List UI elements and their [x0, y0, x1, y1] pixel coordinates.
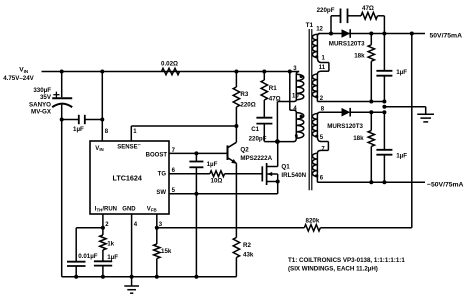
svg-text:GND: GND	[122, 206, 136, 212]
svg-text:(SIX WINDINGS, EACH 11.2µH): (SIX WINDINGS, EACH 11.2µH)	[288, 266, 378, 273]
svg-text:R3: R3	[240, 91, 248, 98]
op-amp U1 LTC1624 box	[90, 141, 169, 214]
node junction -50V/18k	[369, 180, 373, 184]
node junction +50V/18k	[369, 32, 373, 36]
wire pin 8 lead	[317, 112, 320, 115]
svg-text:SW: SW	[156, 190, 166, 196]
node junction Q1 source/bulk	[276, 180, 280, 184]
wire pin4 GND column	[131, 214, 133, 277]
node junction BOOST/C-boost	[194, 151, 198, 155]
resistor 15k	[156, 228, 158, 244]
wire jog 5-7	[317, 137, 321, 142]
wire VIN rail	[42, 71, 300, 73]
svg-text:R1: R1	[269, 85, 277, 92]
node phase dot winding 4-9	[300, 115, 303, 118]
node junction pin2/1uF	[382, 100, 386, 104]
node junction SW/C-boost	[194, 192, 198, 196]
svg-text:0.02Ω: 0.02Ω	[161, 60, 178, 67]
svg-text:Q1: Q1	[281, 164, 290, 171]
wire C1 to winding2 bottom	[264, 141, 294, 143]
capacitor 220pF snubber	[340, 9, 342, 24]
svg-text:18k: 18k	[354, 53, 365, 60]
wire pin 10 lead	[294, 100, 296, 102]
node junction rail/pin4 connector	[288, 70, 292, 74]
node junction SENSE/R3	[234, 124, 238, 128]
svg-text:35V: 35V	[40, 94, 52, 101]
svg-text:50V/75mA: 50V/75mA	[430, 32, 463, 39]
wire pin1 SENSE column	[130, 126, 132, 141]
node junction pin2/18k	[369, 100, 373, 104]
resistor 47ohm snubber	[361, 12, 378, 19]
inductor winding 4-9	[294, 110, 296, 112]
resistor 18k bottom	[370, 112, 372, 130]
svg-text:SENSE−: SENSE−	[117, 143, 140, 151]
node junction rail/0.01uF	[74, 275, 78, 279]
svg-text:1µF: 1µF	[396, 69, 407, 76]
svg-text:MURS120T3: MURS120T3	[327, 123, 363, 130]
svg-text:ITH/RUN: ITH/RUN	[95, 206, 117, 212]
svg-text:0.01µF: 0.01µF	[78, 253, 98, 260]
svg-text:MV-GX: MV-GX	[31, 108, 52, 115]
transistor Q1 IRL540N	[261, 166, 263, 181]
svg-text:MURS120T3: MURS120T3	[329, 41, 365, 48]
inductor winding 12-1	[317, 34, 320, 37]
svg-text:IRL540N: IRL540N	[281, 172, 306, 179]
resistor R1 47ohm	[263, 72, 265, 81]
node junction rail/1uF-ith	[101, 275, 105, 279]
svg-text:820k: 820k	[306, 218, 320, 225]
node junction ITH node	[101, 226, 105, 230]
resistor 18k top	[370, 34, 372, 45]
svg-text:MPS2222A: MPS2222A	[240, 155, 272, 162]
wire TG line	[169, 173, 210, 175]
node junction rail/15k	[155, 275, 159, 279]
svg-text:BOOST: BOOST	[146, 152, 168, 158]
wire jog 1-11	[317, 57, 321, 62]
transistor Q2 MPS2222A	[227, 145, 229, 160]
svg-text:C1: C1	[251, 126, 259, 133]
wire pin 2 lead	[316, 97, 318, 101]
node junction R1 top rail	[262, 70, 266, 74]
inductor winding 8-5	[316, 114, 318, 137]
node junction C330/1uF	[60, 118, 64, 122]
svg-text:LTC1624: LTC1624	[113, 173, 142, 182]
wire SENSE line	[131, 125, 236, 127]
svg-text:43k: 43k	[243, 252, 254, 259]
node junction VIN rail / pin8 column	[100, 70, 104, 74]
svg-text:R2: R2	[243, 242, 251, 249]
capacitor 330uF electrolytic	[61, 72, 63, 98]
node junction rail/SW column	[194, 275, 198, 279]
svg-text:10: 10	[292, 94, 299, 100]
svg-text:15k: 15k	[161, 248, 172, 255]
node phase dot winding 3-10	[300, 75, 303, 78]
wire pin 4 connector	[289, 72, 291, 111]
svg-text:TG: TG	[158, 171, 167, 177]
wire VFB feedback line	[157, 227, 304, 229]
node phase dot winding 8-5	[315, 135, 318, 138]
node phase dot winding 11-2	[315, 95, 318, 98]
node junction +50V/1uF	[382, 32, 386, 36]
svg-text:220pF: 220pF	[249, 135, 267, 142]
svg-text:220Ω: 220Ω	[240, 102, 255, 109]
svg-text:47Ω: 47Ω	[362, 5, 374, 12]
node junction rail/GND pin	[130, 275, 134, 279]
inductor winding 3-10	[296, 72, 299, 75]
svg-text:10Ω: 10Ω	[211, 178, 223, 185]
wire +50V line	[319, 33, 426, 35]
node junction R3 top rail	[234, 70, 238, 74]
capacitor 1uF ith	[94, 260, 112, 262]
svg-text:SANYO: SANYO	[29, 101, 51, 108]
svg-text:Q2: Q2	[240, 147, 249, 154]
wire -50V line	[317, 181, 425, 183]
capacitor 0.01uF	[67, 261, 86, 263]
node phase dot winding 7-6	[315, 174, 318, 177]
svg-text:1µF: 1µF	[107, 254, 118, 261]
svg-text:220pF: 220pF	[317, 7, 335, 14]
node junction drain node	[275, 139, 280, 144]
wire pin2 column	[102, 214, 104, 228]
svg-text:VIN: VIN	[95, 146, 103, 152]
node junction D2/18k	[369, 110, 373, 114]
resistor 1k	[102, 228, 104, 235]
wire BOOST line	[169, 152, 228, 154]
node junction pin12/snubber	[329, 32, 333, 36]
svg-text:1µF: 1µF	[73, 126, 84, 133]
svg-text:1µF: 1µF	[396, 152, 407, 159]
capacitor 1uF -50V	[383, 112, 385, 149]
node junction VFB node	[155, 226, 159, 230]
svg-text:12: 12	[316, 27, 323, 33]
resistor 10ohm	[210, 171, 225, 177]
resistor R2 43k	[233, 238, 239, 258]
svg-text:11: 11	[319, 65, 326, 71]
svg-text:1k: 1k	[107, 240, 114, 247]
wire GND tap	[384, 106, 425, 108]
transformer T1 core	[308, 29, 310, 190]
capacitor 1uF input	[62, 119, 79, 121]
wire SW line	[169, 193, 278, 195]
wire ITH node to 0.01uF	[76, 227, 103, 229]
capacitor 1uF boost	[195, 153, 197, 161]
node junction GND tap	[382, 105, 386, 109]
resistor R3 220ohm	[235, 72, 237, 88]
wire 820k to +50V riser	[320, 227, 412, 229]
capacitor 1uF +50V	[383, 34, 385, 71]
label 330uF plus sign	[53, 94, 59, 96]
ground symbol right	[425, 107, 427, 114]
resistor 0.02ohm	[162, 68, 180, 74]
ground symbol bottom	[131, 277, 133, 286]
wire pin3 VFB column	[156, 214, 158, 228]
svg-text:4.75V–24V: 4.75V–24V	[3, 75, 34, 82]
wire snubber stub	[330, 16, 332, 34]
diode D2 MURS120T3	[342, 108, 351, 117]
resistor 820k	[304, 225, 320, 231]
node junction -50V/1uF	[382, 180, 386, 184]
svg-text:−50V/75mA: −50V/75mA	[427, 181, 464, 188]
capacitor C1 220pF	[256, 117, 272, 119]
wire TG to Q1 gate	[225, 173, 263, 175]
node phase dot winding 12-1	[315, 55, 318, 58]
inductor winding 7-6	[316, 153, 318, 176]
diode D1 MURS120T3	[342, 29, 351, 38]
wire pin 6 lead	[316, 176, 318, 182]
wire bottom ground rail	[62, 276, 237, 278]
svg-text:18k: 18k	[353, 135, 364, 142]
wire pin8 column	[101, 72, 103, 142]
svg-text:VFB: VFB	[147, 206, 157, 212]
svg-text:T1: COILTRONICS VP3-0138, 1:1:: T1: COILTRONICS VP3-0138, 1:1:1:1:1:1	[288, 257, 405, 264]
node junction +50V/feedback	[410, 32, 414, 36]
svg-text:T1: T1	[306, 22, 314, 29]
node junction pin8/1uF	[100, 118, 104, 122]
svg-text:1µF: 1µF	[207, 161, 218, 168]
node junction VIN rail / C330	[60, 70, 64, 74]
svg-text:330µF: 330µF	[33, 87, 51, 94]
node junction D2/1uF	[382, 110, 386, 114]
inductor winding 11-2	[316, 74, 318, 97]
